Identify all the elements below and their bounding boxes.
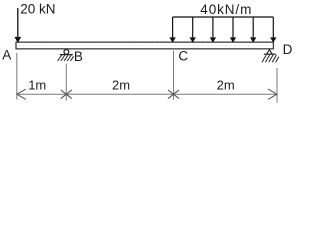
svg-text:A: A <box>2 48 11 63</box>
svg-text:20 kN: 20 kN <box>20 2 55 17</box>
svg-text:D: D <box>283 42 293 57</box>
svg-text:2m: 2m <box>217 77 235 92</box>
svg-text:2m: 2m <box>112 77 130 92</box>
svg-text:1m: 1m <box>28 78 46 93</box>
svg-text:40kN/m: 40kN/m <box>200 2 252 17</box>
svg-text:B: B <box>74 49 83 64</box>
svg-text:C: C <box>178 48 188 63</box>
